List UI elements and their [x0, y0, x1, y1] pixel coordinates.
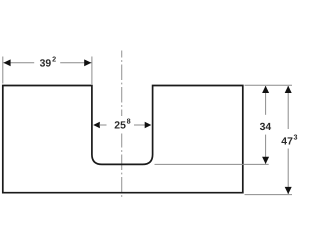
extension line at notch bottom level (for 34) — [155, 163, 269, 165]
arrow left of 39.2 — [3, 59, 10, 66]
centerline (vertical dash-dot through notch) — [121, 51, 123, 198]
arrow down of 47.3 — [285, 187, 292, 194]
extension line bottom right (for 47.3) — [245, 194, 293, 196]
part outline (countertop with U cutout) — [3, 86, 243, 193]
dimension line 34 — [265, 86, 267, 164]
dimension line 39.2 — [3, 62, 91, 64]
arrow up of 34 — [262, 86, 269, 93]
dimension 25.8 inside notch: left arrow — [93, 122, 100, 128]
svg-text:25: 25 — [114, 121, 126, 132]
label 34 — [257, 115, 274, 135]
svg-text:39: 39 — [40, 59, 52, 70]
arrow up of 47.3 — [285, 86, 292, 93]
svg-text:34: 34 — [260, 122, 272, 133]
svg-text:2: 2 — [52, 55, 56, 64]
wire left of 25.8 label — [99, 124, 106, 126]
arrow down of 34 — [262, 157, 269, 164]
label 39.2 — [34, 56, 60, 70]
extension line left (for 39.2) — [2, 57, 4, 84]
label 47.3 — [279, 129, 300, 149]
right arrow of 25.8 — [145, 122, 152, 128]
extension line top right (for 34 and 47.3) — [245, 84, 293, 86]
extension line right of 39.2 (above notch left wall) — [91, 57, 93, 85]
svg-text:8: 8 — [127, 117, 131, 126]
svg-text:3: 3 — [294, 132, 298, 141]
wire right of 25.8 label — [134, 124, 145, 126]
dimension line 47.3 — [287, 86, 289, 194]
svg-text:47: 47 — [281, 136, 293, 147]
label 25.8 — [108, 116, 133, 134]
arrow right of 39.2 — [84, 59, 91, 66]
